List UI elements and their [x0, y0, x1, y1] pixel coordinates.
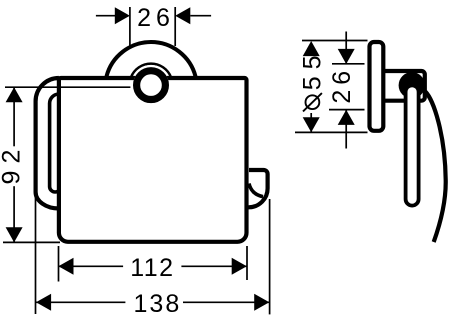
dimension 92 (left): bottom arrow [6, 227, 23, 242]
wall plate, side view [370, 42, 384, 131]
white sliver between collar and ring [135, 66, 168, 75]
dimension 92 (left): bottom extension line [3, 241, 60, 243]
dimension 26 (top): left arrow [115, 7, 130, 24]
dimension 26 (top): right tail [190, 15, 211, 17]
svg-text:92: 92 [0, 143, 25, 185]
dimension 26 (side): upper dimension line tail [345, 32, 347, 65]
dimension O55: diameter symbol slash [303, 93, 322, 111]
collar seat arc over roll pin [131, 64, 171, 78]
curved arm, side view [425, 92, 445, 243]
svg-text:112: 112 [130, 254, 174, 282]
dimension 26 (side): lower arrow (points up) [338, 110, 355, 125]
dimension 26 (top): left tail [96, 15, 116, 17]
dimension O55: bottom arrow [303, 117, 320, 132]
roll pin ring, front view [137, 71, 166, 100]
spare hook outer outline, right side of cover [249, 170, 268, 207]
dimension 138: right arrow [254, 294, 269, 311]
dimension O55: bottom extension line [295, 131, 368, 133]
rosette (wall plate) arc, front view [107, 42, 196, 76]
dimension 26 (top): right arrow [175, 7, 190, 24]
dimension 138: left extension line [35, 196, 37, 314]
holder body block, side view [383, 71, 425, 101]
dimension 112: right extension line [246, 246, 248, 280]
dimension O55: top extension line [302, 40, 368, 42]
dimension 112: dimension line right segment [181, 265, 246, 267]
dimension 26 (side): lower dimension line tail [345, 110, 347, 149]
dimension 138: dimension line left segment [36, 301, 125, 303]
extension line (92 top, bar top tangent) overlay [5, 86, 130, 88]
dimension 26 (side): upper arrow (points down) [338, 49, 355, 64]
roll bar inner outline, front view [50, 94, 61, 192]
dimension 92 (left): dimension line upper segment [13, 87, 15, 146]
dimension O55: dimension line lower segment [310, 113, 312, 132]
roll bar outer outline, front view [36, 78, 59, 209]
spare hook inner outline [249, 184, 263, 197]
dimension O55: diameter symbol circle [306, 95, 320, 109]
dimension 138: dimension line right segment [183, 301, 269, 303]
dimension O55: top arrow [303, 41, 320, 56]
dimension 112: dimension line left segment [58, 265, 123, 267]
dimension 92 (left): dimension line lower segment [13, 186, 15, 242]
svg-text:6: 6 [156, 4, 170, 32]
dimension 26 (side): bottom extension line [329, 109, 365, 111]
svg-text:138: 138 [134, 290, 182, 318]
dimension 112: left extension line [58, 246, 60, 282]
dimension 26 (top): left extension line [129, 7, 131, 46]
dimension 112: left arrow [58, 258, 73, 275]
roll bar loop, side view [406, 85, 419, 205]
dimension 26 (side): top extension line [332, 63, 365, 65]
svg-text:26: 26 [328, 66, 356, 104]
cover plate, front view [59, 78, 247, 242]
pivot disc, side view [399, 72, 425, 98]
svg-text:2: 2 [137, 4, 151, 32]
svg-text:55: 55 [299, 48, 327, 90]
dimension 138: right extension line [269, 199, 271, 314]
dimension 138: left arrow [36, 294, 51, 311]
dimension 112: right arrow [232, 258, 247, 275]
dimension 26 (top): right extension line [174, 7, 176, 46]
dimension 92 (left): top arrow [6, 87, 23, 102]
white core inside roll pin [133, 67, 169, 103]
